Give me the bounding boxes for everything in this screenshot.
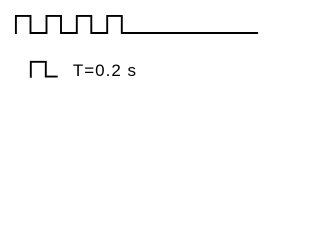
svg-text:T=0.2 s: T=0.2 s (73, 61, 137, 80)
pulse train waveform (16, 16, 258, 34)
single-period pulse icon (31, 62, 58, 78)
